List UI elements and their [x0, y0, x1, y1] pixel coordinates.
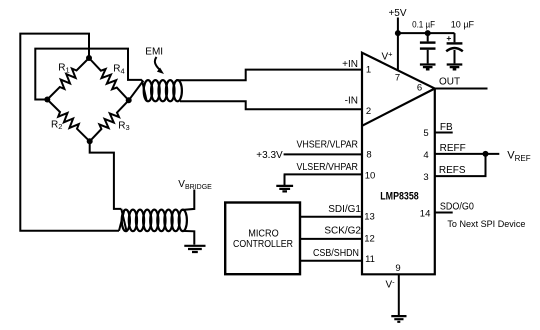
svg-text:11: 11 — [365, 254, 375, 265]
svg-text:8: 8 — [366, 150, 371, 161]
svg-text:REFS: REFS — [439, 165, 466, 176]
svg-text:3: 3 — [423, 172, 428, 183]
svg-text:7: 7 — [395, 73, 400, 84]
svg-text:CONTROLLER: CONTROLLER — [233, 239, 293, 250]
svg-text:OUT: OUT — [439, 76, 460, 87]
svg-text:12: 12 — [364, 234, 375, 245]
svg-text:6: 6 — [417, 83, 422, 94]
svg-text:+5V: +5V — [388, 8, 406, 19]
svg-text:VHSER/VLPAR: VHSER/VLPAR — [296, 140, 358, 151]
svg-text:SDO/G0: SDO/G0 — [440, 202, 474, 213]
svg-text:MICRO: MICRO — [248, 229, 279, 240]
svg-text:FB: FB — [440, 122, 453, 133]
svg-text:REFF: REFF — [440, 143, 466, 154]
svg-text:5: 5 — [423, 128, 428, 139]
svg-text:-IN: -IN — [345, 95, 358, 106]
svg-text:EMI: EMI — [145, 47, 163, 58]
svg-text:SDI/G1: SDI/G1 — [328, 204, 361, 215]
svg-text:To Next SPI Device: To Next SPI Device — [447, 219, 525, 230]
svg-text:13: 13 — [364, 212, 375, 223]
svg-text:0.1 µF: 0.1 µF — [412, 20, 435, 30]
svg-text:1: 1 — [366, 64, 371, 75]
svg-text:4: 4 — [423, 150, 428, 161]
svg-text:+: + — [446, 33, 451, 43]
svg-text:VLSER/VHPAR: VLSER/VHPAR — [296, 162, 358, 173]
svg-text:10: 10 — [365, 171, 376, 182]
svg-text:SCK/G2: SCK/G2 — [324, 226, 361, 237]
svg-text:+3.3V: +3.3V — [256, 150, 283, 161]
svg-text:2: 2 — [366, 106, 371, 117]
svg-text:CSB/SHDN: CSB/SHDN — [313, 248, 359, 259]
svg-text:9: 9 — [395, 263, 400, 274]
svg-text:LMP8358: LMP8358 — [380, 191, 419, 203]
svg-text:+IN: +IN — [342, 59, 358, 70]
svg-text:14: 14 — [420, 208, 431, 219]
svg-text:10 µF: 10 µF — [451, 20, 475, 30]
